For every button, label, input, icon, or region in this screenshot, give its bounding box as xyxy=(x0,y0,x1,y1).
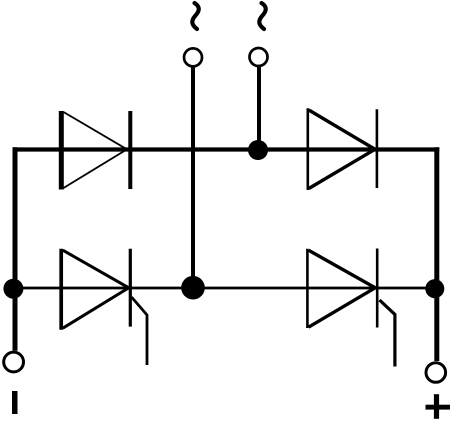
AC terminal 1 (open circle) xyxy=(184,48,202,66)
AC tilde symbol for terminal 1 xyxy=(192,3,198,29)
thyristor Q1 cathode bar xyxy=(129,249,132,327)
diode D1 (top left) anode bar xyxy=(59,111,64,190)
wire: bottom horizontal bus xyxy=(13,287,440,290)
junction node A (AC2 to top bus) xyxy=(248,140,268,160)
junction node on bottom bus left (minus rail) xyxy=(3,279,23,299)
wire: right vertical from top bus down to plus terminal xyxy=(434,147,439,361)
diode D1 cathode bar xyxy=(128,111,132,189)
thyristor Q1 (bottom left) anode bar xyxy=(59,249,63,330)
junction node on bottom bus right (plus rail) xyxy=(425,279,444,298)
AC terminal 2 (open circle) xyxy=(250,48,268,66)
plus output terminal (open circle) xyxy=(426,363,446,383)
wire: top horizontal bus xyxy=(13,147,440,151)
junction node B (AC1 to bottom bus, center) xyxy=(181,276,205,300)
AC tilde symbol for terminal 2 xyxy=(259,3,265,29)
thyristor Q2 (bottom right) anode bar xyxy=(306,249,309,328)
wire: left vertical from top bus down to minus terminal xyxy=(13,147,18,350)
thyristor Q2 gate lead xyxy=(380,300,395,367)
plus sign label xyxy=(426,394,450,419)
diode D2 triangle xyxy=(309,110,375,189)
wire: AC terminal 1 down to bottom bus node B xyxy=(191,67,195,289)
thyristor Q2 cathode bar xyxy=(376,249,379,328)
thyristor Q2 triangle xyxy=(309,250,376,327)
diode D1 triangle xyxy=(64,112,128,188)
minus output terminal (open circle) xyxy=(4,352,24,372)
diode D2 cathode bar xyxy=(376,109,379,188)
diode D2 (top right) anode bar xyxy=(306,108,309,190)
wire: AC terminal 2 down to top bus node A xyxy=(257,66,261,150)
thyristor Q1 gate lead xyxy=(132,297,148,365)
minus sign label (rotated bar) xyxy=(12,391,18,414)
thyristor Q1 triangle xyxy=(63,250,129,328)
